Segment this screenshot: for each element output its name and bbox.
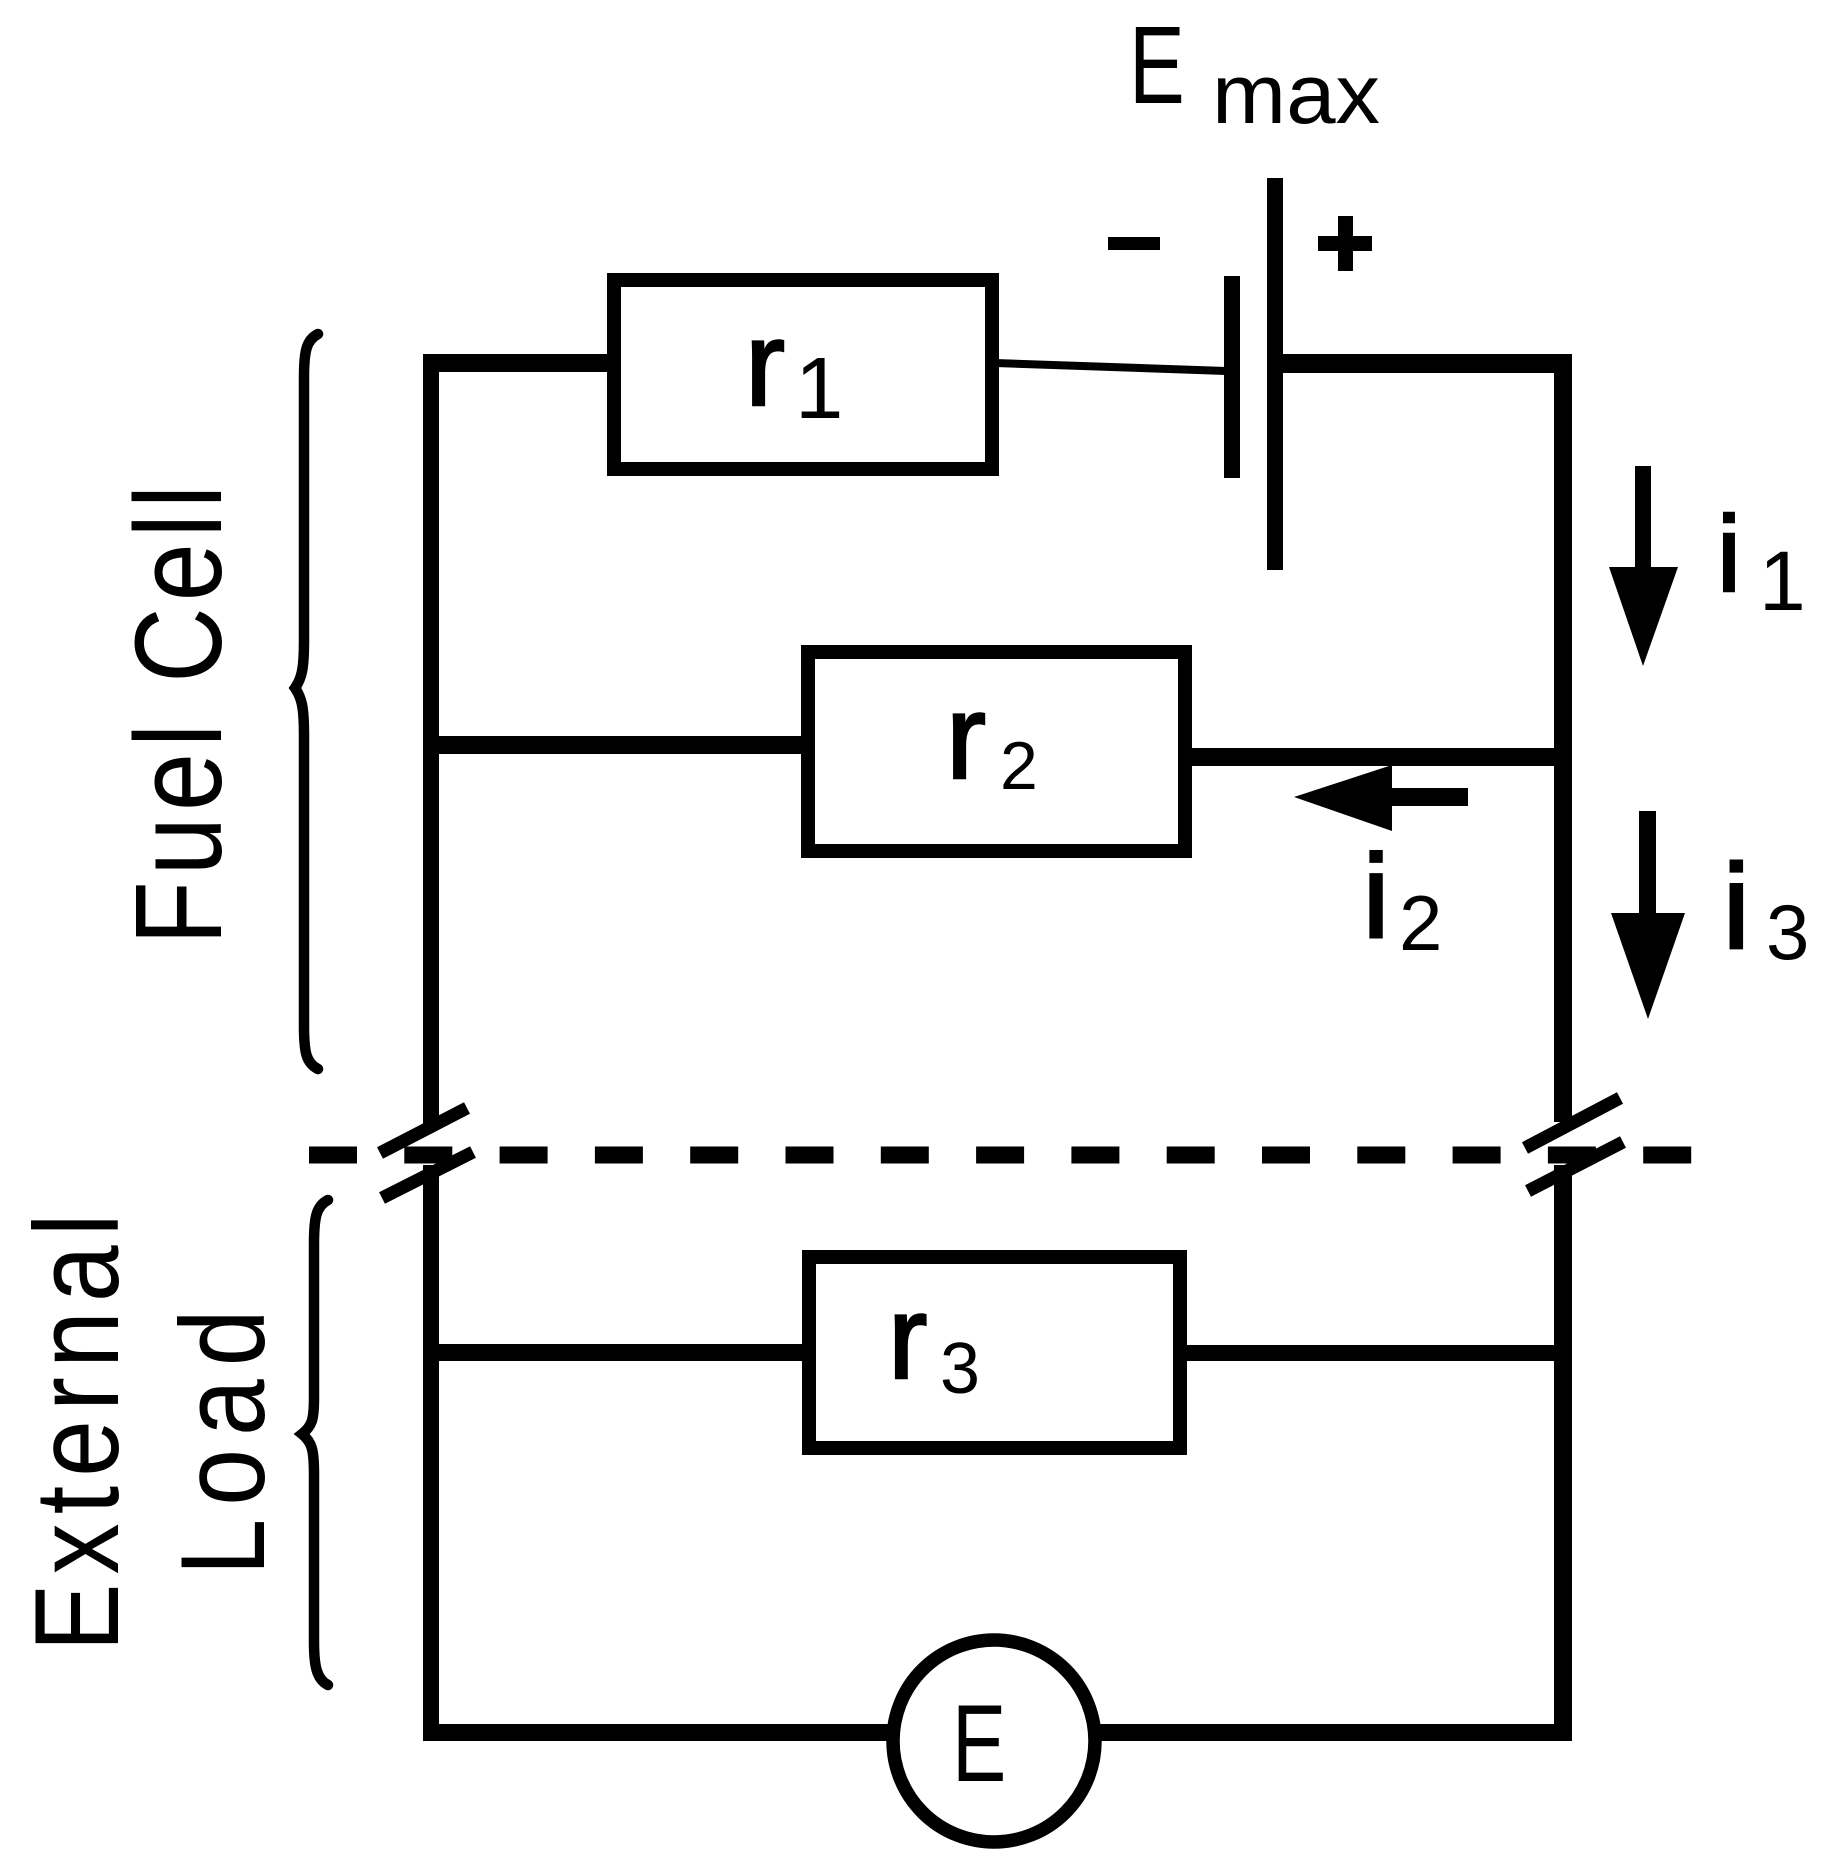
svg-text:2: 2 — [1000, 728, 1038, 804]
svg-text:3: 3 — [940, 1329, 980, 1409]
svg-text:r: r — [745, 297, 785, 431]
svg-text:E: E — [1129, 4, 1185, 127]
svg-text:External: External — [9, 1205, 144, 1652]
svg-text:2: 2 — [1399, 879, 1442, 967]
svg-text:Fuel Cell: Fuel Cell — [111, 479, 248, 945]
svg-text:i: i — [1717, 493, 1741, 614]
svg-text:Load: Load — [155, 1297, 290, 1576]
svg-text:max: max — [1212, 47, 1380, 141]
svg-text:1: 1 — [1759, 534, 1806, 628]
svg-text:E: E — [952, 1681, 1006, 1805]
svg-text:1: 1 — [795, 340, 843, 437]
svg-text:r: r — [946, 670, 986, 804]
svg-text:i: i — [1363, 831, 1389, 963]
svg-text:3: 3 — [1766, 888, 1809, 976]
svg-text:r: r — [888, 1272, 927, 1404]
svg-text:i: i — [1723, 840, 1750, 974]
